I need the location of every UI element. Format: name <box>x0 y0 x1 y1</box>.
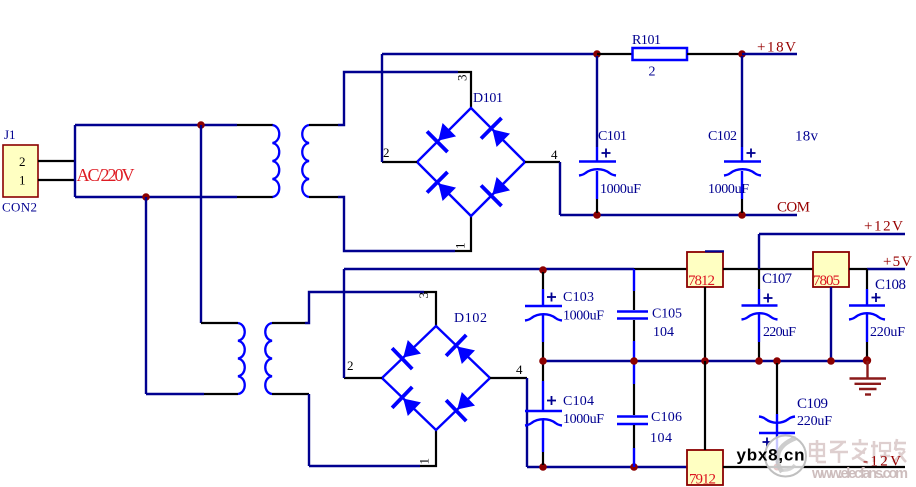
svg-text:C109: C109 <box>797 396 828 412</box>
svg-text:ybx8,cn: ybx8,cn <box>737 446 805 465</box>
svg-text:220uF: 220uF <box>797 414 832 429</box>
7812 ground pin wire <box>704 287 706 361</box>
capacitor C104 <box>525 363 562 465</box>
R101 left pin <box>597 53 632 55</box>
D101 pin 3 stub <box>458 72 471 108</box>
junction 7805 gnd <box>827 357 835 365</box>
capacitor C103 <box>525 272 562 358</box>
capacitor C101 <box>579 56 616 213</box>
junction C105/C106 mid <box>630 357 638 365</box>
capacitor C108 <box>849 269 885 357</box>
D101 pin 4 stub <box>525 161 560 163</box>
transformer T1 secondary winding <box>302 125 309 197</box>
svg-text:C108: C108 <box>875 277 906 293</box>
svg-text:D101: D101 <box>473 91 503 106</box>
regulator U1 7812 <box>687 252 723 287</box>
wire: T2 secondary top to D102 pin3 <box>305 292 424 323</box>
R101 right pin <box>687 53 742 55</box>
svg-text:C104: C104 <box>563 394 594 409</box>
wire: ground mid rail <box>543 360 867 362</box>
junction C102 bottom <box>738 211 746 219</box>
svg-text:C103: C103 <box>563 290 594 305</box>
7912 ground pin wire <box>704 361 706 450</box>
junction C109 bottom <box>774 464 781 471</box>
wire: +5V rail <box>867 268 905 270</box>
wire: +12V takeoff vertical <box>758 234 760 269</box>
D102 pin 4 stub <box>490 377 527 379</box>
connector J1 (CON2) <box>3 145 38 197</box>
junction C103 top <box>539 266 547 274</box>
junction 7812 gnd <box>701 357 709 365</box>
wire: T1 secondary bottom to D101 pin1 <box>338 197 455 251</box>
watermark hanzi 5 <box>893 439 906 462</box>
watermark hanzi 3 <box>852 439 868 463</box>
J1 pin 1 stub <box>38 179 75 181</box>
junction C106 bottom <box>630 463 638 471</box>
svg-text:4: 4 <box>551 147 558 162</box>
svg-text:COM: COM <box>777 200 810 216</box>
ground symbol <box>850 361 887 395</box>
wire: D101 pin4 down to COM rail <box>559 162 561 215</box>
svg-text:+18V: +18V <box>757 40 796 56</box>
svg-text:2: 2 <box>347 358 354 373</box>
svg-text:1000uF: 1000uF <box>708 182 749 197</box>
svg-text:1: 1 <box>19 173 26 188</box>
svg-text:1000uF: 1000uF <box>600 182 641 197</box>
junction C108 bottom / ground node <box>863 356 871 364</box>
wire: bottom horizontal to T1 primary <box>75 196 237 198</box>
wire: horizontal to T2 primary bottom <box>146 393 204 395</box>
wire: top horizontal to T1 primary <box>75 124 237 126</box>
capacitor C102 <box>724 56 761 213</box>
svg-text:7805: 7805 <box>813 273 840 289</box>
wire: lower positive rail to C105 <box>344 268 634 270</box>
wire: D102 pin4 down to negative rail <box>526 378 528 467</box>
svg-text:CON2: CON2 <box>2 200 37 215</box>
7805 ground pin wire <box>830 287 832 360</box>
svg-text:D102: D102 <box>454 311 487 326</box>
svg-text:2: 2 <box>649 65 656 80</box>
wire: T2 secondary bottom down <box>308 394 310 466</box>
capacitor C109 (reversed) <box>759 363 795 465</box>
wire: 7805 output (+5V) <box>849 268 867 270</box>
wire: +18V rail right segment <box>742 53 797 55</box>
svg-text:1: 1 <box>453 243 468 250</box>
junction C107 bottom <box>755 357 763 365</box>
svg-text:1: 1 <box>417 458 432 465</box>
wire: D101 pin2 up to +18V rail <box>381 54 383 162</box>
svg-text:C105: C105 <box>652 307 682 322</box>
T1 secondary bottom pin stub <box>309 196 338 198</box>
svg-text:C101: C101 <box>598 129 627 144</box>
T1 secondary top pin stub <box>309 124 338 126</box>
svg-text:+12V: +12V <box>864 219 903 235</box>
junction C103/C104 mid <box>539 357 547 365</box>
watermark hanzi 1 <box>810 440 826 462</box>
watermark hanzi 2 <box>830 442 848 463</box>
transformer T2 primary winding <box>238 323 245 394</box>
wire: COM rail <box>560 214 797 216</box>
wire: T1 secondary top to D101 pin3 <box>338 72 458 125</box>
svg-text:3: 3 <box>455 75 470 82</box>
T1 primary bottom pin stub <box>237 196 273 198</box>
svg-text:1000uF: 1000uF <box>563 309 604 324</box>
watermark logo circle <box>765 436 806 477</box>
T1 primary top pin stub <box>237 124 273 126</box>
junction C109 top <box>773 357 781 365</box>
svg-text:4: 4 <box>516 362 523 377</box>
wire: lower positive rail to 7812 input <box>634 268 688 270</box>
junction on top wire <box>197 121 205 129</box>
svg-text:104: 104 <box>653 325 674 340</box>
junction on bottom wire <box>142 193 150 201</box>
J1 pin 2 stub <box>38 160 75 162</box>
svg-text:220uF: 220uF <box>763 325 796 340</box>
svg-text:104: 104 <box>650 431 672 446</box>
wire: vertical from bottom junction down <box>145 197 147 394</box>
wire: 7812 output to 7805 input <box>723 268 813 270</box>
wire: vertical from top junction down to T2 primary <box>200 125 202 323</box>
svg-text:2: 2 <box>383 145 390 160</box>
junction at R101 right / C102 top <box>738 50 746 58</box>
junction at R101 left / C101 top <box>593 50 601 58</box>
svg-text:C106: C106 <box>651 410 682 425</box>
svg-text:7812: 7812 <box>688 273 715 289</box>
T2 secondary bottom pin stub <box>272 393 309 395</box>
svg-text:J1: J1 <box>4 127 16 142</box>
junction C101 bottom <box>593 211 601 219</box>
svg-text:3: 3 <box>416 292 431 299</box>
wire: +12V rail <box>759 233 905 235</box>
wire: across to D102 pin1 <box>309 465 420 467</box>
T2 primary bottom pin stub <box>204 393 238 395</box>
resistor R101 <box>633 48 688 60</box>
svg-text:C102: C102 <box>708 129 737 144</box>
svg-text:7912: 7912 <box>689 472 716 487</box>
T2 secondary top pin stub <box>272 322 305 324</box>
transformer T2 secondary winding <box>265 323 272 394</box>
capacitor C105 <box>617 269 648 361</box>
bridge rectifier D102 <box>382 326 490 430</box>
artifact wire stub on 7812 top <box>705 250 724 252</box>
junction C104 bottom <box>539 463 547 471</box>
regulator U3 7912 <box>687 450 723 485</box>
svg-text:220uF: 220uF <box>870 325 905 340</box>
svg-text:C107: C107 <box>762 271 793 287</box>
svg-text:R101: R101 <box>632 33 661 48</box>
bridge rectifier D101 <box>417 108 525 216</box>
wire: J1 loop left vertical <box>74 125 76 197</box>
wire: D102 pin2 up to lower positive rail <box>343 269 345 378</box>
T2 primary top pin stub <box>201 322 238 324</box>
watermark hanzi 4 <box>871 441 890 462</box>
D101 pin 2 stub <box>382 161 417 163</box>
wire: 7912 output -12V <box>723 466 905 468</box>
svg-text:2: 2 <box>19 154 26 169</box>
D102 pin 1 stub <box>420 430 436 466</box>
svg-text:+5V: +5V <box>883 254 912 270</box>
wire: +18V rail left of R101 <box>382 53 597 55</box>
svg-text:1000uF: 1000uF <box>563 412 604 427</box>
D101 pin 1 stub <box>455 216 471 251</box>
svg-text:AC/220V: AC/220V <box>77 165 135 185</box>
transformer T1 primary winding <box>273 125 280 197</box>
D102 pin 2 stub <box>344 377 382 379</box>
svg-text:18v: 18v <box>795 129 819 145</box>
regulator U2 7805 <box>813 252 849 287</box>
capacitor C106 <box>617 361 648 467</box>
wire: negative rail to 7912 input <box>527 466 688 468</box>
D102 pin 3 stub <box>424 292 436 326</box>
capacitor C107 <box>742 269 778 358</box>
